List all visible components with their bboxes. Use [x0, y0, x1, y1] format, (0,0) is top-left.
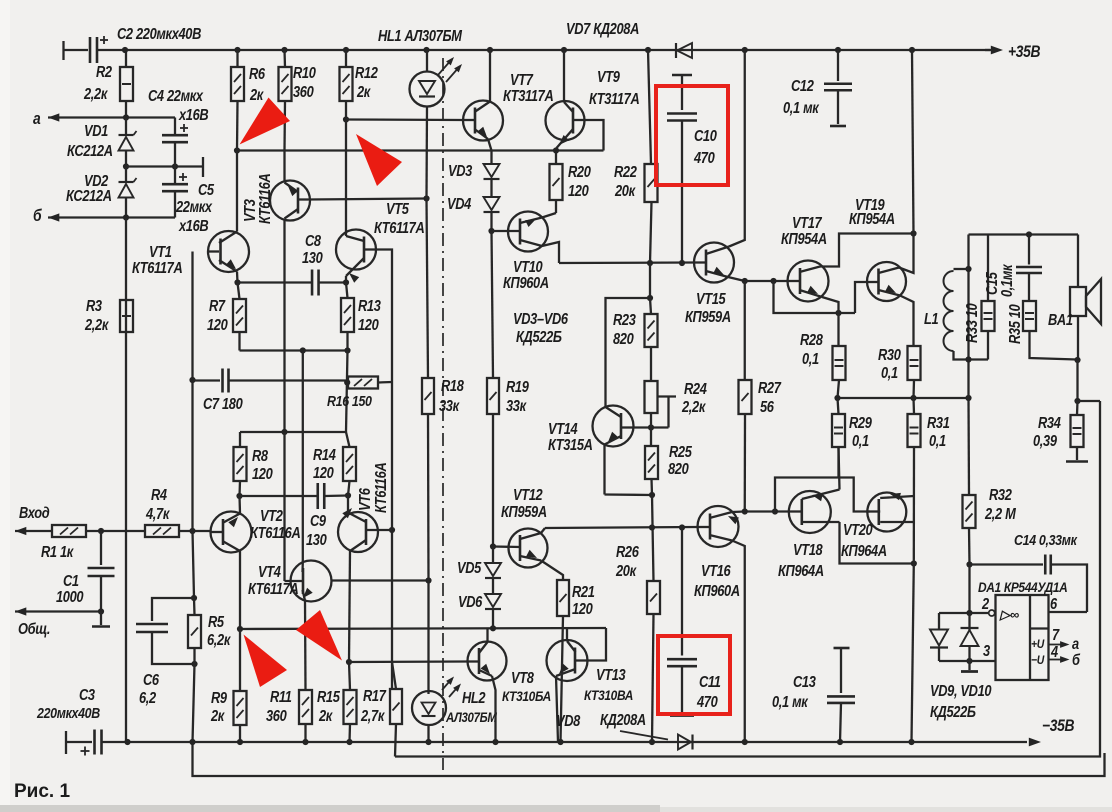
label R34	[1033, 414, 1061, 449]
resistor R14	[343, 432, 356, 496]
svg-text:VT15: VT15	[696, 290, 727, 307]
junction dot rail HL2	[425, 739, 431, 745]
junction dot VD6 bottom	[490, 625, 496, 631]
wire mirror line 629	[240, 628, 606, 629]
svg-text:2,2к: 2,2к	[83, 85, 108, 102]
svg-text:КТ310ВА: КТ310ВА	[584, 687, 633, 703]
label R8	[252, 447, 273, 482]
wire R17 bottom to line A	[395, 724, 396, 757]
ground bar R34	[1066, 460, 1088, 463]
svg-text:2,2к: 2,2к	[84, 316, 109, 333]
label R30	[878, 346, 901, 381]
svg-text:Общ.: Общ.	[18, 620, 50, 637]
wire VT5 base to fb column	[376, 250, 392, 383]
svg-text:R20: R20	[568, 163, 591, 180]
junction dot VT17/VT19 drain	[910, 230, 916, 236]
resistor R32	[963, 398, 976, 565]
wire R8 to VT2	[238, 496, 241, 513]
svg-text:КТ6116А: КТ6116А	[250, 524, 301, 541]
transistor VT4	[285, 351, 332, 691]
transistor VT5	[336, 230, 376, 283]
junction dot C10/263	[679, 260, 685, 266]
svg-text:220мкх40В: 220мкх40В	[36, 705, 100, 721]
svg-text:R6: R6	[249, 65, 265, 82]
junction dot R32/C14	[966, 561, 972, 567]
capacitor C2	[90, 36, 108, 63]
wire VT15 base line 263	[559, 261, 695, 264]
diode VD10	[961, 613, 979, 661]
label C5	[175, 181, 215, 234]
label VD2	[66, 172, 112, 204]
label -35V	[1042, 717, 1074, 735]
resistor R17	[390, 662, 402, 724]
label R14	[313, 446, 336, 481]
diode VD9	[930, 613, 948, 661]
svg-text:КД522Б: КД522Б	[516, 328, 562, 345]
wire R25-R26 column	[652, 495, 654, 581]
svg-text:R1 1к: R1 1к	[41, 543, 74, 560]
junction dot rail C3/R3	[124, 739, 130, 745]
junction dot BA1 bottom	[1074, 357, 1080, 363]
junction dot rail VT16	[742, 739, 748, 745]
svg-text:КП959А: КП959А	[685, 308, 731, 325]
svg-text:6,2: 6,2	[139, 689, 156, 706]
junction dot VD2/b	[123, 214, 129, 220]
svg-text:КТ6117А: КТ6117А	[374, 219, 425, 236]
wire VT4 base column	[283, 432, 285, 581]
wire VT7 base line	[346, 118, 463, 121]
junction dot VT4 base branch	[281, 429, 287, 435]
label C4	[148, 87, 209, 123]
label VD8	[556, 711, 646, 729]
junction dot rail R2	[122, 47, 128, 53]
wire VT5 collector column	[345, 120, 347, 237]
svg-text:R26: R26	[616, 543, 639, 560]
red arrow marker 1	[240, 98, 291, 145]
svg-text:R3: R3	[86, 297, 102, 314]
svg-text:2,2к: 2,2к	[681, 398, 706, 415]
junction dot C1 tap	[98, 528, 104, 534]
transistor VT19	[867, 234, 914, 347]
label R11	[266, 688, 292, 724]
label C8	[302, 232, 323, 266]
junction dot rail VT19	[909, 47, 915, 53]
wire VT18 drain down	[840, 522, 914, 564]
svg-text:R2: R2	[96, 63, 112, 80]
label VT9	[589, 68, 640, 107]
junction dot VT14 base	[648, 424, 654, 430]
label VT12	[501, 486, 547, 520]
junction dot VT3/HL1	[423, 195, 429, 201]
junction dot 773	[770, 278, 776, 284]
label C6	[139, 671, 159, 706]
axis dash-dot line	[442, 58, 444, 770]
wire VT3 emitter column	[283, 151, 285, 183]
svg-text:R28: R28	[800, 331, 823, 348]
resistor R3	[120, 300, 133, 332]
junction dot R30/R31	[910, 395, 916, 401]
svg-text:R7: R7	[209, 297, 226, 314]
junction dot R18 bottom	[425, 577, 431, 583]
svg-text:КТ6117А: КТ6117А	[248, 580, 299, 597]
svg-text:R15: R15	[317, 688, 341, 705]
svg-text:VD6: VD6	[458, 593, 482, 610]
svg-text:R34: R34	[1038, 414, 1061, 431]
svg-text:VT13: VT13	[596, 666, 626, 683]
leader line VD8	[620, 731, 668, 740]
junction dot rail R11	[302, 739, 308, 745]
resistor R10	[279, 50, 292, 151]
label R23	[613, 311, 636, 347]
svg-text:VT18: VT18	[793, 541, 823, 558]
svg-text:+U: +U	[1031, 638, 1045, 651]
wire VT18 gate line	[745, 510, 789, 512]
resistor R7	[233, 283, 246, 351]
svg-text:R21: R21	[572, 583, 595, 600]
svg-text:120: 120	[207, 316, 228, 333]
label VT3 vertical	[241, 173, 273, 224]
capacitor C14	[970, 555, 1088, 613]
capacitor C6	[136, 598, 195, 664]
label VT4	[248, 563, 299, 597]
capacitor C11	[667, 528, 697, 716]
svg-text:120: 120	[358, 316, 379, 333]
junction dot R2/a	[123, 114, 129, 120]
wire VT9 base loop	[585, 120, 604, 151]
label DA1 pin7	[1052, 626, 1060, 643]
svg-text:КП960А: КП960А	[694, 582, 740, 599]
resistor R23	[645, 298, 658, 381]
svg-text:33к: 33к	[439, 397, 460, 414]
wire DA1 pin6 line	[1049, 611, 1088, 613]
wire -35V bottom rail	[102, 741, 1028, 743]
label DA1 pin4	[1050, 643, 1058, 660]
wire R27 column	[744, 281, 746, 380]
svg-text:VD9, VD10: VD9, VD10	[930, 682, 992, 699]
junction dot R22/263	[647, 260, 653, 266]
transistor VT9	[546, 50, 586, 148]
label R13	[358, 297, 381, 333]
label R6	[249, 65, 265, 103]
svg-text:C6: C6	[143, 671, 159, 688]
svg-text:R31: R31	[927, 414, 950, 431]
svg-text:R14: R14	[313, 446, 336, 463]
wire VT4 to R18 line 580	[331, 579, 429, 581]
label R7	[207, 297, 228, 333]
svg-text:20к: 20к	[614, 182, 636, 199]
junction dot 652/528	[649, 524, 655, 530]
node b output	[33, 207, 175, 225]
label VT2	[250, 507, 301, 541]
svg-text:VD1: VD1	[84, 122, 108, 139]
wire VT8 base line	[349, 660, 468, 663]
svg-text:C10: C10	[694, 127, 717, 144]
svg-text:VD8: VD8	[556, 712, 580, 729]
svg-text:▷∞: ▷∞	[999, 607, 1019, 622]
svg-text:BA1: BA1	[1048, 311, 1073, 328]
svg-text:R35 10: R35 10	[1006, 304, 1023, 344]
red arrow marker 3	[244, 635, 288, 688]
svg-text:КП964А: КП964А	[778, 562, 824, 579]
svg-text:56: 56	[760, 398, 774, 415]
svg-text:120: 120	[313, 464, 334, 481]
wire bottom line B	[193, 742, 1105, 776]
svg-text:33к: 33к	[506, 397, 527, 414]
label R3	[84, 297, 109, 333]
transistor VT12	[493, 528, 563, 580]
junction dot C15 top	[1026, 231, 1032, 237]
LED HL2 arrows	[442, 677, 461, 698]
junction dot rail R26	[649, 739, 655, 745]
resistor R25	[645, 413, 658, 495]
svg-text:120: 120	[568, 182, 589, 199]
svg-text:2,7к: 2,7к	[360, 707, 385, 724]
label R16	[327, 393, 372, 409]
resistor R22	[645, 50, 658, 263]
wire C4-C5 mid tap	[126, 157, 203, 177]
label R2	[83, 63, 112, 102]
svg-text:0,39: 0,39	[1033, 432, 1057, 449]
wire bottom feedback line A	[395, 401, 1100, 757]
transistor VT8	[468, 628, 507, 742]
svg-text:VT9: VT9	[597, 68, 620, 85]
junction dot VT1 emitter	[234, 279, 240, 285]
junction dot R28/R29	[834, 395, 840, 401]
svg-text:АЛ307БМ: АЛ307БМ	[445, 710, 497, 725]
label DA1 -U	[1031, 654, 1045, 667]
capacitor C15	[1016, 235, 1042, 302]
transistor VT14	[593, 406, 634, 495]
wire output to -35 rail	[912, 447, 915, 742]
resistor R20	[550, 151, 563, 214]
resistor R26	[647, 581, 660, 742]
LED HL1 arrows	[438, 57, 462, 82]
svg-text:4: 4	[1050, 643, 1058, 660]
label L1	[924, 310, 939, 327]
resistor R29	[832, 398, 845, 479]
svg-text:VT8: VT8	[511, 669, 534, 686]
svg-text:R25: R25	[669, 443, 693, 460]
label R28	[800, 331, 823, 367]
junction dot VT12 base	[490, 543, 496, 549]
svg-text:б: б	[33, 207, 42, 225]
resistor R13	[341, 283, 354, 351]
resistor R31	[908, 398, 921, 447]
transistor VT16	[698, 506, 745, 742]
label C2	[117, 25, 201, 42]
svg-text:х16В: х16В	[178, 217, 208, 234]
svg-text:C12: C12	[791, 77, 814, 94]
resistor R1	[52, 525, 86, 537]
resistor R18	[422, 378, 434, 581]
wire R29 to VT18 source	[839, 447, 840, 490]
label VT5	[374, 200, 425, 236]
svg-text:C9: C9	[310, 512, 326, 529]
ground bar VD10	[961, 661, 978, 672]
label R32	[984, 486, 1016, 522]
label R12	[355, 64, 378, 100]
svg-text:130: 130	[302, 249, 323, 266]
svg-text:R9: R9	[211, 689, 227, 706]
svg-text:3: 3	[983, 642, 990, 659]
junction dot rail VT8	[492, 739, 498, 745]
junction dot VT10 base	[488, 228, 494, 234]
svg-text:R19: R19	[506, 378, 529, 395]
junction dot rail R6	[234, 47, 240, 53]
svg-text:C8: C8	[305, 232, 321, 249]
label VD3	[448, 162, 472, 179]
wire VT3 base to HL1 node	[308, 199, 427, 200]
label VD4	[447, 195, 471, 212]
capacitor C10	[667, 75, 697, 263]
terminal bar C2 left	[64, 41, 89, 60]
label R26	[615, 543, 639, 579]
label VT16	[694, 562, 740, 599]
resistor R4	[145, 525, 211, 537]
resistor R11	[299, 690, 312, 742]
diode VD5	[485, 547, 501, 595]
svg-text:2к: 2к	[249, 86, 264, 103]
svg-text:VT12: VT12	[513, 486, 543, 503]
label VT20	[841, 521, 887, 559]
svg-text:R12: R12	[355, 64, 378, 81]
svg-text:КТ6116А: КТ6116А	[256, 173, 273, 224]
label R25	[668, 443, 693, 477]
resistor R30	[908, 346, 921, 398]
wire R1 to R4	[86, 530, 145, 532]
resistor R8	[234, 432, 247, 496]
junction dot VT6 base	[389, 527, 395, 533]
junction dot L1 top	[965, 266, 971, 272]
junction dot C7 tap	[189, 377, 195, 383]
label R15	[317, 688, 341, 724]
svg-text:КС212А: КС212А	[67, 142, 113, 159]
svg-text:820: 820	[613, 330, 634, 347]
wire y=528 gate line	[545, 527, 698, 528]
junction dot out 563	[911, 560, 917, 566]
svg-text:C4 22мкх: C4 22мкх	[148, 87, 204, 104]
svg-text:C13: C13	[793, 673, 816, 690]
wire R5 column	[193, 531, 195, 598]
label VD7	[566, 20, 639, 37]
junction dot VD10 bottom	[966, 658, 972, 664]
junction dot rail R10	[281, 47, 287, 53]
svg-text:C2 220мкх40В: C2 220мкх40В	[117, 25, 201, 42]
junction dot R16 left	[344, 379, 350, 385]
label VT14	[548, 420, 593, 453]
input terminal Vhod	[15, 504, 52, 535]
label VT17	[781, 214, 827, 247]
junction dot rail R15	[346, 739, 352, 745]
svg-text:R27: R27	[758, 379, 782, 396]
svg-text:L1: L1	[924, 310, 939, 327]
wire L1 bottom line	[969, 358, 989, 360]
label DA1 +U	[1031, 638, 1045, 651]
svg-text:R29: R29	[849, 414, 872, 431]
svg-text:0,1мк: 0,1мк	[998, 264, 1015, 297]
junction dot VT8 base node	[346, 659, 352, 665]
svg-text:R32: R32	[989, 486, 1012, 503]
speaker BA1	[1070, 235, 1101, 361]
resistor R15	[344, 662, 357, 742]
junction dot VT4 collector top	[300, 347, 306, 353]
junction dot R5/C6 top	[191, 595, 197, 601]
diode VD8 on rail	[678, 735, 693, 750]
wire VT14 collector bypass	[606, 298, 651, 407]
trimmer R24	[645, 381, 677, 428]
svg-text:КД208А: КД208А	[600, 711, 646, 728]
capacitor C12	[824, 50, 852, 126]
DA1 output a	[1049, 635, 1080, 652]
highlight box C11	[658, 636, 730, 714]
label +35V	[1008, 43, 1040, 61]
junction dot rail R12	[343, 47, 349, 53]
label VD6	[458, 593, 482, 610]
wire BA1 to R34	[1076, 360, 1078, 401]
junction dot 775 gate	[772, 508, 778, 514]
svg-text:C3: C3	[79, 686, 95, 703]
wire R5 to rail	[193, 648, 195, 742]
svg-text:VT6: VT6	[356, 488, 373, 511]
transistor VT3	[270, 181, 310, 433]
capacitor C1	[88, 531, 115, 612]
wire VT19 base riser	[855, 282, 867, 313]
wire VT15 emitter line	[745, 280, 788, 282]
label VD5	[457, 559, 482, 576]
transistor VT1	[208, 151, 249, 283]
label C14	[1014, 532, 1078, 548]
svg-text:DA1 КР544УД1А: DA1 КР544УД1А	[978, 579, 1067, 595]
junction dot C8 right	[343, 279, 349, 285]
label R17	[360, 687, 387, 724]
svg-text:0,1 мк: 0,1 мк	[772, 693, 808, 710]
capacitor C13	[827, 648, 855, 742]
diode VD6	[485, 594, 501, 628]
junction dot R20 top	[553, 147, 559, 153]
svg-text:0,1: 0,1	[852, 432, 869, 449]
wire 350 line	[240, 349, 348, 351]
junction dot R12 node	[343, 116, 349, 122]
svg-text:C7 180: C7 180	[203, 395, 243, 412]
label R9	[210, 689, 227, 724]
label C13	[772, 673, 816, 710]
svg-text:0,1 мк: 0,1 мк	[783, 99, 819, 116]
label VD3-VD6	[513, 310, 568, 345]
label R24	[681, 380, 707, 415]
wire VT14 emitter return	[605, 493, 653, 496]
label VT6 vertical	[356, 462, 389, 513]
capacitor C8	[238, 270, 347, 296]
resistor R12	[340, 50, 353, 120]
svg-text:КП960А: КП960А	[503, 274, 549, 291]
label C10	[693, 127, 717, 166]
svg-text:VT5: VT5	[386, 200, 410, 217]
svg-text:2к: 2к	[356, 83, 371, 100]
transistor VT17	[788, 234, 914, 347]
svg-text:4,7к: 4,7к	[145, 505, 170, 522]
svg-text:R11: R11	[270, 688, 292, 705]
svg-text:820: 820	[668, 460, 689, 477]
junction dot 681/528	[679, 524, 685, 530]
junction dot rail VT7	[487, 47, 493, 53]
junction dot R25 bottom	[649, 492, 655, 498]
svg-text:20к: 20к	[615, 562, 637, 579]
label R21	[572, 583, 595, 617]
transistor VT2	[211, 512, 252, 630]
junction dot rail HL1	[423, 47, 429, 53]
svg-text:VD7 КД208А: VD7 КД208А	[566, 20, 639, 37]
svg-text:VD4: VD4	[447, 195, 471, 212]
